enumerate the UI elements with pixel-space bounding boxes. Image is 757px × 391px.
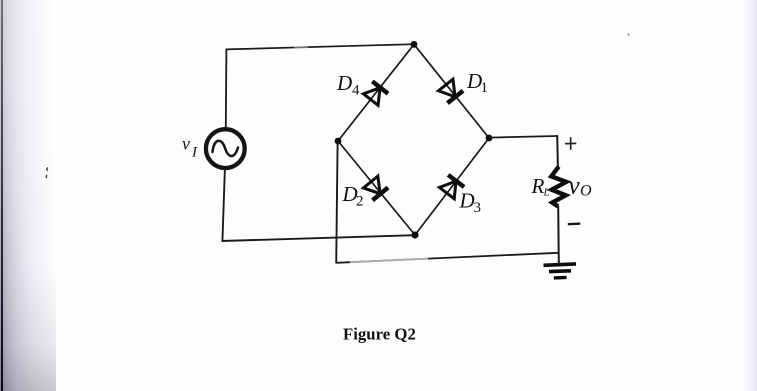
node right <box>486 135 493 142</box>
scan fade on bottom long wire <box>350 259 428 263</box>
node left <box>335 138 342 145</box>
wire right node horizontal <box>489 136 557 138</box>
svg-text:2: 2 <box>356 194 364 210</box>
diode D1 <box>438 79 463 103</box>
wire bridge branch bottom-right (D3 branch) <box>415 138 489 235</box>
diode D2 <box>363 176 388 201</box>
scan left shading band <box>0 0 56 391</box>
svg-text:R: R <box>531 174 545 198</box>
AC source vI <box>206 129 245 168</box>
scan right faint band <box>743 0 757 391</box>
diode D4 <box>363 81 388 105</box>
wire left node vertical down <box>336 143 337 263</box>
node bottom <box>411 231 418 238</box>
wire top horizontal <box>226 44 414 49</box>
node top <box>411 41 418 48</box>
svg-text:v: v <box>182 134 190 154</box>
wire source bottom vertical <box>222 169 225 242</box>
diode D3 <box>439 175 464 199</box>
svg-text:D: D <box>336 71 352 95</box>
plus sign <box>565 142 576 144</box>
svg-text:I: I <box>191 145 198 161</box>
svg-text:v: v <box>569 173 581 200</box>
svg-text:4: 4 <box>352 83 360 99</box>
wire bridge branch left-bottom (D2 branch) <box>338 141 415 235</box>
scan page edge dark line <box>1 0 3 391</box>
wire right vertical above resistor <box>556 135 559 167</box>
svg-text:1: 1 <box>481 80 489 96</box>
wire right vertical below resistor <box>557 206 560 264</box>
svg-text:Figure Q2: Figure Q2 <box>343 325 416 344</box>
wire bottom horizontal to bridge bottom node <box>222 235 415 241</box>
svg-text:3: 3 <box>474 200 482 216</box>
wire bottom long horizontal to ground <box>336 253 558 263</box>
minus sign <box>568 222 581 225</box>
ground bar 2 <box>549 269 571 273</box>
scan left shading vertical tone variation <box>0 0 56 391</box>
svg-text:D: D <box>459 189 475 213</box>
wire top-left vertical (source top to corner) <box>225 49 228 129</box>
wire bridge branch top-left (D4 branch) <box>338 44 414 141</box>
AC source sine wave <box>213 141 239 156</box>
ground bar 1 <box>544 264 577 265</box>
ground bar 3 <box>554 276 567 280</box>
svg-text:O: O <box>580 183 592 200</box>
wire bridge branch top-right (D1 branch) <box>414 44 489 138</box>
resistor RL zigzag <box>551 167 566 207</box>
scan fade on top wire <box>294 46 308 48</box>
svg-text:L: L <box>543 187 550 199</box>
stray scan mark colon left margin <box>46 168 48 179</box>
stray scan dot top right <box>627 33 629 35</box>
